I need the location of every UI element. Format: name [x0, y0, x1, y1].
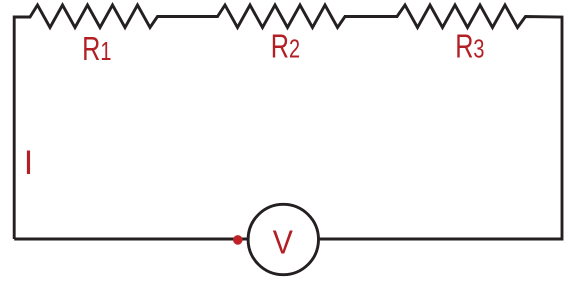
svg-text:R2: R2 [271, 28, 300, 65]
resistor R2 label [271, 28, 300, 65]
svg-text:R3: R3 [455, 28, 484, 65]
voltmeter U1 [248, 204, 318, 274]
resistor R1 label [82, 31, 111, 68]
svg-text:V: V [273, 223, 294, 261]
svg-text:R1: R1 [82, 31, 111, 68]
resistor R3 label [455, 28, 484, 65]
wire loop: left vertical, top rail through resistors, right vertical, bottom-right segment [14, 5, 562, 239]
wire: bottom-left segment [14, 238, 248, 241]
svg-text:I: I [24, 144, 33, 182]
node junction dot [233, 235, 243, 245]
voltmeter V label [273, 223, 294, 261]
